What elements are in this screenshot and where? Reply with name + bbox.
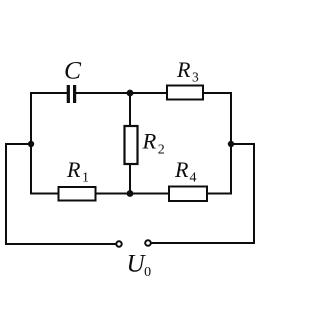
right source terminal <box>145 240 151 246</box>
wire node B' to right source terminal <box>152 144 254 243</box>
wire R3 to top-right corner <box>203 92 231 94</box>
node A junction dot (left) <box>28 141 34 147</box>
wire capacitor to R3 (through node B) <box>76 92 167 94</box>
capacitor C <box>68 85 74 103</box>
resistor R3 <box>167 86 203 100</box>
node D junction dot (bottom middle) <box>127 190 134 197</box>
left source terminal <box>116 241 121 246</box>
wire R1 to node D <box>96 193 169 195</box>
wire R4 to right vertical <box>207 193 231 195</box>
node C junction dot (right) <box>228 141 234 147</box>
wire left vertical branch <box>31 93 58 194</box>
resistor R1 <box>59 187 96 201</box>
resistor R4 <box>169 187 207 202</box>
wire top-left to capacitor <box>31 92 66 94</box>
wire node A to left source terminal <box>6 144 116 244</box>
wire right vertical branch <box>230 93 232 194</box>
wire R2 bottom lead <box>129 164 131 194</box>
svg-text:C: C <box>64 56 82 85</box>
wire R2 top lead <box>129 93 131 126</box>
node B junction dot (top middle) <box>127 90 134 97</box>
resistor R2 <box>125 126 138 164</box>
